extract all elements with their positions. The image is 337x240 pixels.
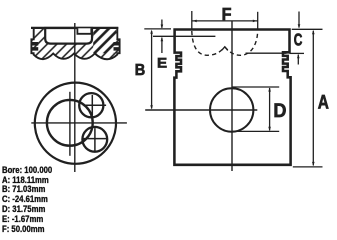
svg-text:B: B — [135, 62, 146, 80]
bowl profile cusp mark — [222, 47, 228, 51]
horizontal centerline through pin bore / B reference — [145, 109, 257, 111]
upper small circle crosshair — [91, 95, 93, 116]
svg-text:C: C — [294, 32, 303, 51]
A bottom reference line — [293, 166, 323, 168]
right section coarse hatch overlay — [93, 29, 116, 53]
dimension F extension tick right — [257, 12, 259, 31]
svg-text:F: F — [222, 4, 232, 24]
side-view vertical centerline — [231, 21, 233, 171]
svg-text:E: E — [157, 56, 167, 71]
outer circle (piston bottom view) — [35, 83, 116, 164]
pin bore circle (side view) — [210, 88, 253, 131]
lower small circle crosshair — [94, 128, 96, 151]
pin bore vertical crosshair — [69, 92, 71, 156]
upper small circle (valve pocket) — [79, 93, 103, 117]
main vertical centerline (left views) — [74, 23, 76, 172]
hidden bowl profile (dashed) right arc — [225, 31, 258, 55]
dimension B line with arrows — [151, 31, 153, 109]
hidden bowl profile (dashed) left arc — [192, 31, 225, 55]
interior E-level line — [153, 35, 215, 37]
crown insert slot — [77, 28, 91, 34]
dimension C upper arrow — [298, 12, 300, 28]
dimension D line with arrows — [269, 88, 271, 130]
combustion bowl (white cavity) — [45, 28, 92, 44]
interior C-level line — [246, 52, 287, 54]
B/E top reference line — [144, 28, 171, 30]
svg-text:D: D — [273, 99, 286, 121]
dimension E upper arrow — [161, 20, 163, 28]
dimension F line with arrows — [192, 20, 258, 22]
dimension A line with arrows — [312, 31, 314, 166]
dimension E lower arrow — [161, 38, 163, 53]
C bottom reference line — [290, 52, 305, 54]
dimension C lower arrow — [297, 55, 299, 65]
crown top edge — [31, 27, 118, 29]
piston side-view body outline — [174, 30, 290, 165]
big inner circle (pin bore) — [47, 100, 93, 146]
D bottom reference line — [232, 130, 280, 132]
main horizontal centerline (circular view) — [31, 122, 127, 124]
specification text block — [2, 166, 52, 235]
svg-text:A: A — [318, 91, 329, 113]
lower small circle (valve pocket) — [82, 127, 107, 152]
D top reference line — [232, 86, 280, 88]
A/C top reference line — [292, 28, 323, 30]
dimension F extension tick left — [191, 11, 193, 31]
piston crown cross-section body (hatched) — [31, 28, 119, 59]
